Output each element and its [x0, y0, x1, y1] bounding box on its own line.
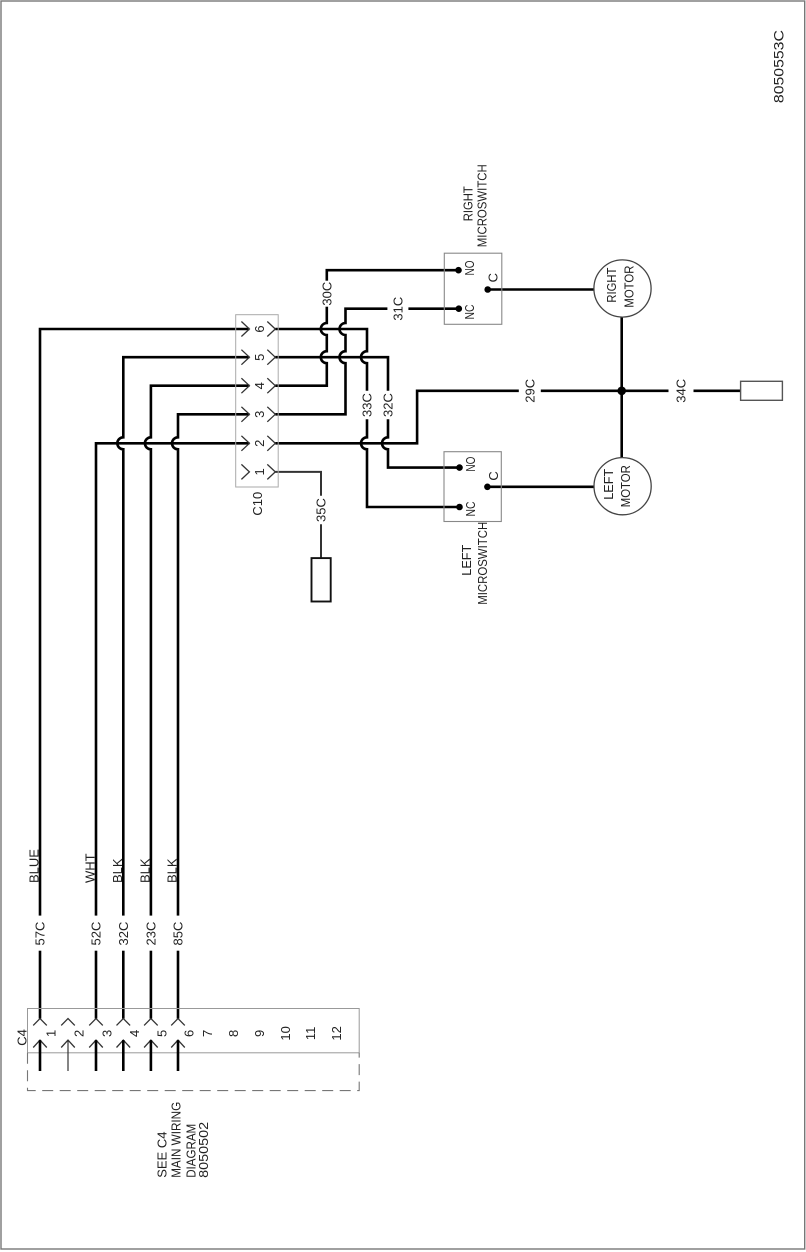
- C4 pin 2: [61, 1019, 86, 1071]
- right microswitch terminal C: [484, 286, 491, 293]
- wire 35C: C10 pin 1 to terminal: [275, 472, 321, 558]
- wire 31C: C10 pin 3 to right microswitch NC (hops): [275, 309, 459, 415]
- svg-text:7: 7: [200, 1030, 215, 1037]
- svg-text:4: 4: [252, 382, 267, 389]
- svg-text:MOTOR: MOTOR: [622, 266, 637, 308]
- label 32C: [116, 916, 131, 951]
- svg-text:11: 11: [303, 1027, 318, 1041]
- svg-text:NO: NO: [462, 261, 477, 276]
- svg-text:1: 1: [252, 468, 267, 475]
- svg-text:4: 4: [127, 1030, 142, 1037]
- C10 pin 1: [241, 464, 275, 479]
- wire: left microswitch C to left motor: [487, 485, 594, 488]
- svg-text:8: 8: [226, 1030, 241, 1037]
- left microswitch terminal C: [484, 484, 491, 491]
- left microswitch terminal NC: [456, 504, 463, 511]
- C4 pin 4: [117, 1019, 142, 1071]
- svg-text:C: C: [486, 471, 501, 480]
- terminal 35C: [312, 558, 331, 601]
- svg-text:LEFT: LEFT: [601, 469, 616, 500]
- C10 pin 6: [241, 322, 275, 337]
- svg-text:MICROSWITCH: MICROSWITCH: [475, 164, 490, 247]
- label 35C: [314, 496, 329, 525]
- svg-text:MAIN WIRING: MAIN WIRING: [169, 1102, 184, 1178]
- label 23C: [144, 916, 159, 951]
- left motor M2: [594, 458, 651, 515]
- svg-text:30C: 30C: [319, 282, 334, 306]
- connector C4 outline: [28, 1009, 360, 1053]
- left microswitch terminal NO: [456, 464, 463, 471]
- label 30C: [319, 281, 334, 307]
- svg-text:35C: 35C: [314, 498, 329, 522]
- svg-text:2: 2: [72, 1030, 87, 1037]
- right microswitch terminal NO: [455, 267, 462, 274]
- wire 32C: C4 pin 4 to C10 pin 5 (hops pin-2 run): [117, 357, 249, 1018]
- svg-text:BLK: BLK: [165, 858, 180, 883]
- svg-text:1: 1: [44, 1030, 59, 1037]
- wire 30C: C10 pin 4 to right microswitch NO (hops): [275, 270, 458, 386]
- right microswitch terminal NC: [456, 305, 463, 312]
- svg-text:C4: C4: [14, 1029, 29, 1046]
- svg-text:SEE C4: SEE C4: [155, 1132, 170, 1178]
- label LEFT MICROSWITCH: [459, 522, 490, 605]
- wire 33C: C10 pin 6 to left microswitch NC (hops): [275, 329, 459, 507]
- svg-text:RIGHT: RIGHT: [461, 186, 476, 221]
- svg-text:3: 3: [100, 1030, 115, 1037]
- wire 29C: C10 pin 2 to motor junction: [275, 391, 621, 444]
- svg-text:33C: 33C: [360, 393, 375, 417]
- note SEE C4 MAIN WIRING DIAGRAM 8050502: [155, 1102, 212, 1178]
- svg-text:9: 9: [252, 1030, 267, 1037]
- svg-text:C: C: [486, 273, 501, 282]
- svg-text:8050502: 8050502: [196, 1122, 211, 1178]
- svg-text:23C: 23C: [144, 922, 159, 946]
- C10 pin 2: [241, 436, 275, 451]
- svg-text:5: 5: [154, 1030, 169, 1037]
- svg-text:BLK: BLK: [137, 858, 152, 883]
- label 57C: [33, 916, 48, 951]
- svg-text:NC: NC: [462, 305, 477, 320]
- label 29C: [519, 379, 541, 403]
- wire 34C: junction to right terminal: [622, 389, 741, 392]
- svg-text:BLK: BLK: [110, 858, 125, 883]
- svg-text:57C: 57C: [33, 922, 48, 946]
- svg-text:MICROSWITCH: MICROSWITCH: [475, 522, 490, 605]
- wire: junction to left motor: [620, 391, 623, 458]
- label 33C: [360, 391, 375, 420]
- wire 52C: C4 pin 3 to C10 pin 2: [96, 443, 249, 1018]
- junction node 29C/34C/motors: [617, 387, 626, 396]
- C4 pin 6: [171, 1019, 196, 1071]
- svg-text:8050553C: 8050553C: [770, 30, 786, 103]
- svg-text:5: 5: [252, 354, 267, 361]
- terminal 34C: [741, 381, 783, 400]
- label 34C: [669, 379, 694, 403]
- svg-text:WHT: WHT: [83, 853, 98, 883]
- C10 pin 4: [241, 378, 275, 393]
- C4 pin 5: [144, 1019, 169, 1071]
- right motor M1: [594, 260, 651, 317]
- label 32C: [381, 391, 396, 420]
- svg-text:NO: NO: [463, 457, 478, 472]
- svg-text:NC: NC: [463, 502, 478, 517]
- svg-text:BLUE: BLUE: [27, 849, 42, 883]
- connector C10 outline: [236, 315, 279, 487]
- wire: right microswitch C to right motor: [488, 288, 594, 291]
- svg-text:2: 2: [252, 440, 267, 447]
- svg-text:RIGHT: RIGHT: [604, 268, 619, 303]
- C4 pin 1: [33, 1019, 58, 1071]
- svg-text:85C: 85C: [171, 922, 186, 946]
- svg-text:12: 12: [329, 1026, 344, 1040]
- wire 57C: C4 pin 1 to C10 pin 6: [40, 329, 249, 1019]
- svg-text:LEFT: LEFT: [459, 545, 474, 576]
- right microswitch box: [444, 253, 502, 324]
- C10 pin 3: [241, 407, 275, 422]
- label 85C: [171, 916, 186, 951]
- wire 32C: C10 pin 5 to left microswitch NO (hops): [275, 357, 459, 467]
- label RIGHT MICROSWITCH: [461, 164, 490, 247]
- svg-text:29C: 29C: [522, 379, 537, 403]
- wire: right motor to junction: [620, 317, 623, 391]
- svg-text:31C: 31C: [390, 297, 405, 321]
- wire 23C: C4 pin 5 to C10 pin 4 (hops pin-2 run): [145, 386, 250, 1019]
- svg-text:52C: 52C: [89, 922, 104, 946]
- label 31C: [387, 297, 408, 321]
- C4 pin 3: [89, 1019, 114, 1071]
- svg-text:3: 3: [252, 411, 267, 418]
- svg-text:C10: C10: [250, 492, 265, 516]
- svg-text:32C: 32C: [116, 922, 131, 946]
- C10 pin 5: [241, 350, 275, 365]
- svg-text:32C: 32C: [381, 393, 396, 417]
- wire 85C: C4 pin 6 to C10 pin 3 (hops pin-2 run): [172, 414, 249, 1018]
- left microswitch box: [444, 452, 501, 522]
- svg-text:MOTOR: MOTOR: [618, 465, 633, 507]
- connector C4 dashed harness boundary: [28, 1053, 360, 1091]
- svg-text:10: 10: [278, 1026, 293, 1040]
- svg-text:34C: 34C: [674, 379, 689, 403]
- svg-text:6: 6: [252, 325, 267, 332]
- svg-text:6: 6: [182, 1030, 197, 1037]
- label 52C: [89, 916, 104, 951]
